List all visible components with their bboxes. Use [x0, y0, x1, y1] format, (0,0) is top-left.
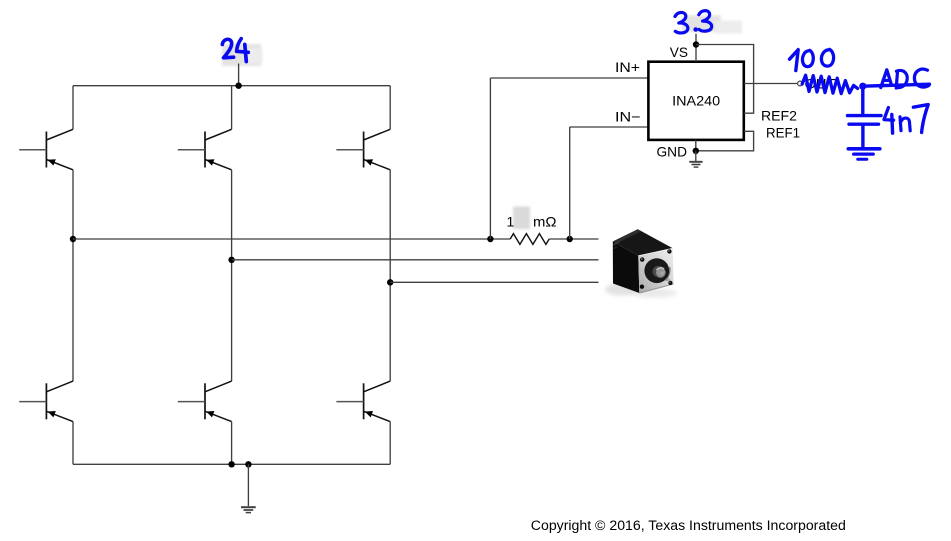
- node OUT terminal: [798, 81, 803, 86]
- wire: blue ADC wire: [863, 84, 930, 86]
- handwritten filter resistor squiggle: [802, 75, 857, 93]
- transistor Q4: [178, 381, 232, 422]
- wire phase B line: [232, 259, 599, 261]
- wire Q4 collector to phase node: [231, 260, 233, 381]
- wire Q3 emitter to phase node: [231, 170, 233, 260]
- handwritten label 100 (filter resistor value): [790, 49, 834, 70]
- wire phase A to shunt: [73, 238, 510, 240]
- svg-text:REF2: REF2: [761, 108, 797, 124]
- node bottom rail ground junction: [245, 461, 251, 467]
- wire Q5 collector to rail: [389, 86, 391, 130]
- ground symbol (U1 GND): [689, 162, 702, 167]
- wire phase C line: [390, 281, 598, 283]
- svg-text:REF1: REF1: [766, 125, 800, 141]
- transistor Q1: [19, 129, 73, 170]
- wire Q6 emitter to bottom rail: [389, 422, 391, 465]
- svg-text:VS: VS: [670, 44, 688, 60]
- ground symbol (bridge): [241, 507, 256, 512]
- wire bottom rail: [73, 463, 390, 465]
- svg-text:Copyright © 2016, Texas Instru: Copyright © 2016, Texas Instruments Inco…: [531, 518, 846, 533]
- node IN+ tap junction: [487, 236, 493, 242]
- erasure patch over shunt value digit: [513, 207, 530, 230]
- node phase A node: [70, 236, 76, 242]
- wire Q2 emitter to bottom rail: [72, 422, 74, 465]
- node phase B node: [228, 257, 234, 263]
- svg-text:IN−: IN−: [615, 109, 641, 125]
- wire Q2 collector to phase node: [72, 239, 74, 381]
- svg-text:mΩ: mΩ: [533, 214, 557, 230]
- op-amp U1 INA240 body: [648, 62, 743, 140]
- node bottom rail junction (Q4 emitter): [228, 461, 234, 467]
- wire GND symbol stub: [695, 151, 697, 161]
- wire Q1 emitter to phase node: [72, 170, 74, 239]
- node phase C node: [387, 279, 393, 285]
- svg-text:IN+: IN+: [615, 59, 640, 75]
- wire Q4 emitter to bottom rail: [231, 422, 233, 465]
- node VS node: [693, 41, 699, 47]
- wire Q1 collector to rail: [72, 86, 74, 130]
- transistor Q6: [336, 381, 390, 422]
- wire Q6 collector to phase node: [389, 282, 391, 381]
- wire Q3 collector to rail: [231, 86, 233, 130]
- transistor Q5: [336, 129, 390, 170]
- transistor Q2: [19, 381, 73, 422]
- wire ground stub: [247, 464, 249, 506]
- svg-text:INA240: INA240: [672, 93, 720, 108]
- svg-text:GND: GND: [657, 143, 688, 159]
- handwritten label 3.3 (VS voltage): [675, 11, 712, 33]
- wire OUT wire: [744, 83, 798, 85]
- wire VS pin stub: [695, 34, 697, 62]
- svg-text:1: 1: [507, 214, 515, 230]
- wire top supply rail: [73, 85, 390, 87]
- motor (stepper photo): [605, 229, 677, 297]
- wire phase A shunt to motor: [549, 238, 598, 240]
- handwritten label ADC: [881, 69, 929, 88]
- erasure patch under 3.3 label: [682, 16, 742, 34]
- wire IN+ sense horizontal: [490, 77, 648, 79]
- erasure patch under 24 label: [222, 44, 262, 66]
- capacitor C (4n7): [848, 116, 882, 147]
- wire VS to REF2 loop: [696, 45, 754, 114]
- handwritten label 4n7: [884, 105, 928, 134]
- node 24V junction: [235, 83, 241, 89]
- ground symbol (blue ADC filter): [848, 149, 880, 160]
- wire IN- sense vertical: [569, 127, 571, 239]
- node: blue RC junction: [859, 83, 866, 90]
- wire Q5 emitter to phase node: [389, 170, 391, 282]
- wire 24V stub: [238, 64, 240, 86]
- wire: blue junction to capacitor: [861, 86, 864, 113]
- wire REF1 to GND loop: [696, 131, 754, 151]
- wire IN+ sense vertical: [489, 78, 491, 239]
- handwritten label 24 (supply voltage): [222, 39, 248, 62]
- wire GND pin stub: [695, 140, 697, 151]
- transistor Q3: [178, 129, 232, 170]
- wire IN- sense horizontal: [570, 126, 649, 128]
- node GND node: [693, 148, 699, 154]
- resistor R_shunt 1 mOhm: [510, 234, 549, 245]
- node IN- tap junction: [567, 236, 573, 242]
